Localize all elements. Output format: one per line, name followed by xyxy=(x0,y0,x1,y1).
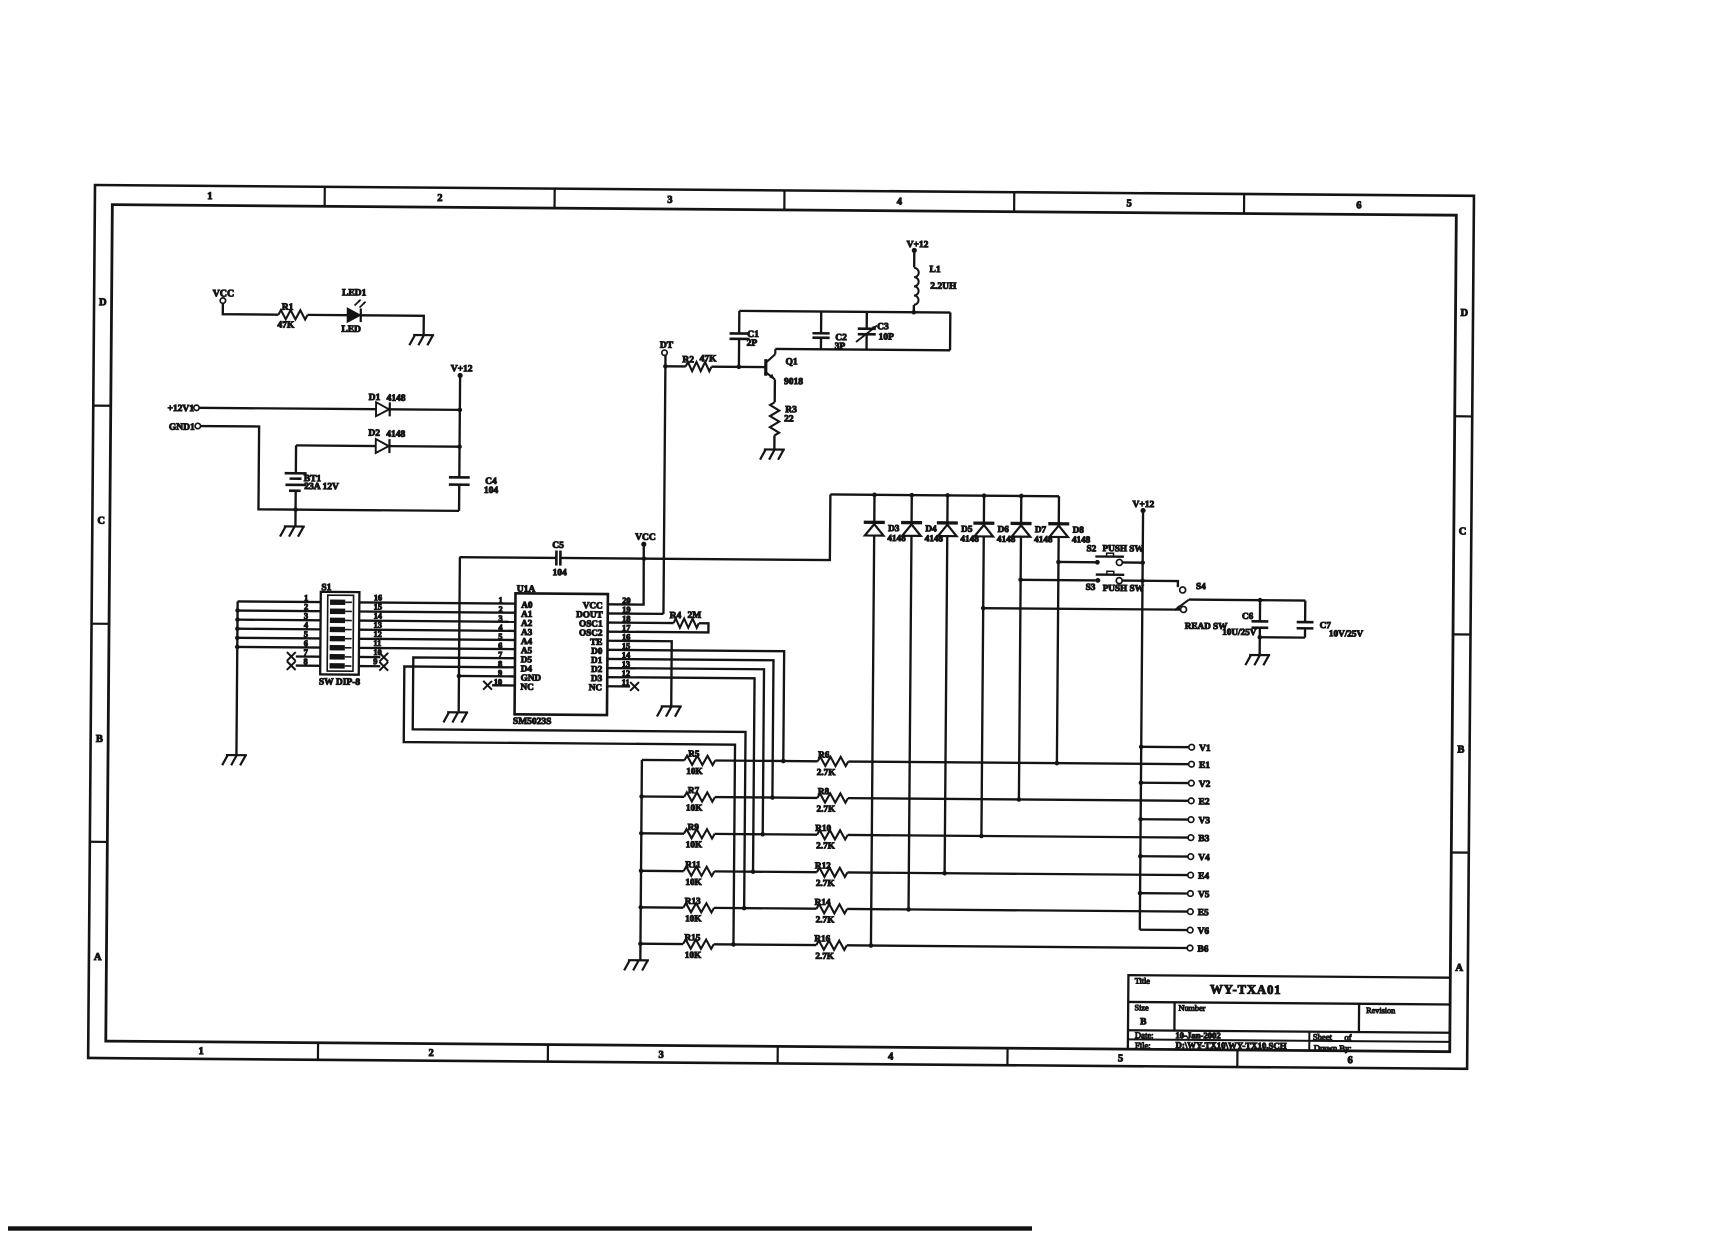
svg-text:L1: L1 xyxy=(930,265,941,275)
svg-text:4: 4 xyxy=(888,1052,894,1063)
no-connect S1 pin 7 xyxy=(287,652,320,661)
resistor R2 47K xyxy=(682,354,717,371)
svg-text:2.7K: 2.7K xyxy=(816,840,836,850)
svg-text:PUSH SW: PUSH SW xyxy=(1102,543,1144,553)
wire U1A pin 15 D0 to row 1 xyxy=(607,650,785,761)
svg-text:V1: V1 xyxy=(1199,744,1211,754)
svg-text:Revision: Revision xyxy=(1366,1006,1395,1015)
svg-text:C: C xyxy=(97,516,105,527)
svg-text:10K: 10K xyxy=(685,950,702,960)
diode D4 4148 xyxy=(898,495,944,910)
wire V+12 down to C4 xyxy=(458,375,461,477)
svg-text:D: D xyxy=(1460,308,1468,319)
svg-text:2.7K: 2.7K xyxy=(816,914,836,924)
node DT xyxy=(660,341,674,356)
battery BT1 23A 12V xyxy=(284,445,339,510)
wire Q1 emitter to R3 xyxy=(774,379,777,402)
svg-text:R12: R12 xyxy=(815,860,831,870)
wire DT vertical to DOUT xyxy=(663,355,665,613)
zone labels xyxy=(93,190,1469,1067)
svg-text:R13: R13 xyxy=(685,896,701,906)
wire S2 to V+12 rail xyxy=(1122,561,1142,564)
wire DT to R2 xyxy=(665,365,685,368)
svg-text:Sheet: Sheet xyxy=(1313,1032,1333,1042)
wire U1A pin 14 D1 to row 2 xyxy=(606,659,773,798)
svg-text:10V/25V: 10V/25V xyxy=(1329,628,1364,638)
junction (C6 bottom) xyxy=(1257,635,1262,640)
resistor R13 10K xyxy=(683,896,714,924)
U1A right pin names xyxy=(575,600,603,692)
resistor R3 22 xyxy=(770,402,797,435)
wire bus to R5 xyxy=(642,759,685,762)
svg-text:+12V1: +12V1 xyxy=(167,404,194,414)
wire battery to D2 xyxy=(296,444,376,447)
wire battery to ground xyxy=(294,510,296,527)
svg-text:R14: R14 xyxy=(815,897,831,907)
wire R10 to terminal B3 xyxy=(848,835,1188,838)
svg-text:Drawn By:: Drawn By: xyxy=(1314,1043,1352,1053)
capacitor C5 104 xyxy=(552,541,567,579)
wire V+12 to L1 xyxy=(913,252,915,267)
svg-text:104: 104 xyxy=(484,486,499,496)
resistor R1 47K xyxy=(277,303,307,331)
address ground bus xyxy=(236,601,237,755)
svg-text:14: 14 xyxy=(374,612,383,621)
wire V+12 rail to terminal V4 xyxy=(1140,855,1188,858)
junction (C6 top) xyxy=(1258,598,1263,603)
svg-text:2: 2 xyxy=(429,1048,434,1059)
wire R14 to terminal E5 xyxy=(847,909,1187,912)
terminal GND1 xyxy=(169,423,201,433)
node VCC (LED chain) xyxy=(213,288,235,303)
svg-text:V+12: V+12 xyxy=(907,240,929,250)
junctions (array bus) xyxy=(638,794,644,946)
svg-text:R11: R11 xyxy=(685,859,701,869)
svg-text:10U/25V: 10U/25V xyxy=(1222,627,1257,637)
svg-text:E4: E4 xyxy=(1198,872,1209,882)
wire U1A pin 7 D5 route xyxy=(411,657,746,908)
junction (D2/C4 rail) xyxy=(457,444,462,449)
power node VCC (logic) xyxy=(635,533,656,547)
svg-text:104: 104 xyxy=(553,568,568,578)
junction (S2/V+12) xyxy=(1140,560,1145,565)
wire D1 to V+12 node xyxy=(390,408,460,411)
junction (C1/base) xyxy=(737,365,742,370)
no-connect S1 pin 9 xyxy=(359,662,388,671)
junction (VCC/C5 rail) xyxy=(642,556,647,561)
svg-text:VCC: VCC xyxy=(635,533,656,543)
svg-text:V5: V5 xyxy=(1198,890,1210,900)
capacitor C2 3P xyxy=(812,311,847,351)
svg-text:2.7K: 2.7K xyxy=(817,767,837,777)
svg-text:D: D xyxy=(99,297,107,308)
svg-text:GND1: GND1 xyxy=(169,423,195,433)
svg-text:PUSH SW: PUSH SW xyxy=(1103,583,1145,593)
wire R1 to LED1 xyxy=(308,314,348,317)
wire C5 rail right segment to diode rail riser xyxy=(560,492,830,560)
wire S3 to S4 top contact xyxy=(1122,581,1178,588)
svg-text:R10: R10 xyxy=(815,823,831,833)
svg-text:11: 11 xyxy=(373,639,381,648)
U1A left pin numbers xyxy=(494,596,504,687)
svg-text:5: 5 xyxy=(1127,198,1132,209)
svg-text:47K: 47K xyxy=(699,354,717,364)
wires S1 right pins 16-11 to U1A xyxy=(359,602,515,649)
svg-text:E2: E2 xyxy=(1199,797,1210,807)
svg-text:B6: B6 xyxy=(1197,945,1208,955)
resistor R5 10K xyxy=(684,748,715,776)
push switch S3 PUSH SW xyxy=(1086,571,1145,593)
wire R8 to terminal E2 xyxy=(848,798,1188,801)
svg-text:Number: Number xyxy=(1179,1004,1206,1013)
wire V+12 rail to terminal V1 xyxy=(1141,746,1189,749)
svg-text:R1: R1 xyxy=(282,303,294,313)
svg-text:of: of xyxy=(1344,1032,1351,1042)
svg-text:R15: R15 xyxy=(684,932,700,942)
wire R5 to R6 xyxy=(715,759,817,762)
svg-text:LED1: LED1 xyxy=(342,288,367,298)
svg-text:S4: S4 xyxy=(1196,581,1206,591)
svg-text:S3: S3 xyxy=(1086,582,1096,592)
svg-text:4: 4 xyxy=(897,197,903,208)
wire VCC to U1A pin 20 xyxy=(608,546,644,605)
junction (S3/V+12) xyxy=(1140,578,1145,583)
svg-text:2: 2 xyxy=(437,193,442,204)
svg-text:23A 12V: 23A 12V xyxy=(304,482,339,492)
svg-text:R9: R9 xyxy=(688,822,700,832)
svg-text:D:\WY-TX10\WY-TX10.SCH: D:\WY-TX10\WY-TX10.SCH xyxy=(1176,1040,1287,1051)
svg-text:12: 12 xyxy=(373,630,381,639)
wire bus to R13 xyxy=(641,906,684,909)
ground (address bus) xyxy=(222,755,247,765)
svg-text:3: 3 xyxy=(667,195,672,206)
title block text xyxy=(1134,976,1395,1053)
svg-text:2M: 2M xyxy=(688,611,702,621)
diode D6 4148 xyxy=(971,496,1016,837)
svg-text:D5: D5 xyxy=(961,524,973,534)
wire R12 to terminal E4 xyxy=(847,872,1187,875)
U1A right pin numbers xyxy=(622,596,632,687)
svg-text:WY-TXA01: WY-TXA01 xyxy=(1210,982,1281,997)
no-connect U1A pin 10 xyxy=(483,681,515,690)
svg-text:10K: 10K xyxy=(686,766,703,776)
diode D2 4148 xyxy=(368,429,405,454)
wire U1A pin 16 TE to ground xyxy=(607,641,672,707)
svg-text:D3: D3 xyxy=(888,523,900,533)
no-connect S1 pin 8 xyxy=(287,661,320,670)
resistor R6 2.7K xyxy=(817,749,849,777)
svg-text:B3: B3 xyxy=(1198,834,1209,844)
wire C6 to ground xyxy=(1258,637,1260,655)
svg-text:B: B xyxy=(1140,1017,1147,1027)
svg-text:E5: E5 xyxy=(1198,908,1209,918)
svg-text:2.7K: 2.7K xyxy=(815,951,835,961)
ground (battery) xyxy=(280,526,305,536)
junction (S3 tap) xyxy=(1018,577,1023,582)
junctions (V+12 rail to V terminals) xyxy=(1138,745,1144,896)
svg-text:C6: C6 xyxy=(1242,611,1254,621)
svg-text:A: A xyxy=(1455,963,1463,974)
diode D5 4148 xyxy=(934,495,979,873)
svg-text:NC: NC xyxy=(589,682,602,692)
svg-text:V4: V4 xyxy=(1198,853,1210,863)
wire tank bottom rail xyxy=(775,349,950,350)
svg-text:DT: DT xyxy=(660,341,674,351)
capacitor C1 2P xyxy=(729,311,759,367)
wire R13 to R14 xyxy=(714,907,816,910)
svg-text:NC: NC xyxy=(521,682,534,692)
ground (Q1 emitter) xyxy=(760,449,785,459)
svg-text:S1: S1 xyxy=(321,583,331,593)
junctions (diode column bottoms) xyxy=(869,759,1060,949)
wire R2 to Q1 base xyxy=(711,365,765,368)
svg-text:10K: 10K xyxy=(686,803,703,813)
junction (S2 tap) xyxy=(1056,560,1061,565)
svg-text:Title: Title xyxy=(1135,976,1151,985)
svg-text:47K: 47K xyxy=(277,321,295,331)
wire bus to R15 xyxy=(640,943,683,946)
wire R4 to U1A pin 17 OSC2 xyxy=(608,623,709,633)
no-connect S1 pin 10 xyxy=(359,653,388,662)
svg-text:2P: 2P xyxy=(747,339,758,349)
junction (L1/tank) xyxy=(912,310,917,315)
wire V+12 rail to terminal V6 xyxy=(1140,929,1188,932)
scanner edge artifact xyxy=(8,1226,1032,1230)
wire L1 to tank rail xyxy=(913,305,915,312)
svg-text:E1: E1 xyxy=(1199,761,1210,771)
svg-text:4148: 4148 xyxy=(386,430,405,440)
capacitor C7 10V/25V xyxy=(1297,600,1364,638)
wire bus to R9 xyxy=(641,832,684,835)
wire D2 to C4 rail xyxy=(389,445,459,448)
wire +12V1 to D1 xyxy=(199,408,376,409)
svg-text:U1A: U1A xyxy=(517,585,536,595)
svg-text:2.2UH: 2.2UH xyxy=(930,282,957,292)
svg-text:A: A xyxy=(94,952,102,963)
wire diode top rail xyxy=(830,494,1059,496)
title block frame xyxy=(1128,975,1450,1052)
power node V+12 (supply) xyxy=(451,364,473,378)
push switch S2 PUSH SW xyxy=(1086,543,1144,566)
svg-text:3: 3 xyxy=(659,1050,664,1061)
svg-text:R8: R8 xyxy=(818,786,830,796)
svg-text:9: 9 xyxy=(498,669,502,678)
wire U1A pin 19 DOUT to DT xyxy=(608,612,664,615)
wire R11 to R12 xyxy=(714,870,816,873)
wire C5 rail left segment xyxy=(459,556,556,559)
wire C4 to bottom rail xyxy=(458,485,461,511)
svg-text:D2: D2 xyxy=(368,429,380,439)
svg-text:5: 5 xyxy=(1118,1053,1123,1064)
terminal +12V1 xyxy=(167,404,199,414)
wire R9 to R10 xyxy=(715,833,817,836)
diode D8 4148 xyxy=(1046,496,1091,763)
op-amp U1A SM5023S body xyxy=(513,585,608,728)
junction (DT/R2) xyxy=(663,364,668,369)
wire tank right edge xyxy=(949,313,952,351)
svg-text:V2: V2 xyxy=(1199,780,1211,790)
wire R16 to terminal B6 xyxy=(847,945,1187,948)
svg-text:B: B xyxy=(96,734,103,745)
wire D7 column to S3 xyxy=(1021,579,1098,582)
resistor R4 2M xyxy=(670,611,702,628)
diode LED1 xyxy=(341,288,366,335)
svg-text:2.7K: 2.7K xyxy=(816,804,836,814)
S1 right pin numbers xyxy=(373,593,383,666)
resistor R8 2.7K xyxy=(816,786,848,814)
resistor R10 2.7K xyxy=(815,823,848,851)
wire U1A pin 9 GND to bus xyxy=(459,675,515,678)
svg-text:File:: File: xyxy=(1135,1040,1151,1050)
svg-text:LED: LED xyxy=(341,325,361,335)
junctions (S1 left bus) xyxy=(235,608,240,649)
power node V+12 (oscillator) xyxy=(907,240,929,253)
svg-text:2.7K: 2.7K xyxy=(816,878,836,888)
resistor R7 10K xyxy=(684,785,715,813)
svg-text:10-Jan-2002: 10-Jan-2002 xyxy=(1175,1030,1220,1040)
no-connect U1A pin 11 xyxy=(607,682,639,691)
svg-text:C: C xyxy=(1459,526,1467,537)
wire R15 to R16 xyxy=(714,943,816,946)
junctions (data verticals on rows) xyxy=(731,758,785,947)
capacitor C4 104 xyxy=(449,476,499,495)
svg-text:R4: R4 xyxy=(670,611,682,621)
diode D3 4148 xyxy=(860,495,906,946)
svg-text:D4: D4 xyxy=(925,523,937,533)
zone tick marks xyxy=(88,185,1474,1069)
svg-text:R16: R16 xyxy=(814,933,830,943)
wire D8 column to S2 xyxy=(1058,561,1097,564)
svg-text:C3: C3 xyxy=(877,322,889,332)
wire LED1 to ground xyxy=(361,315,424,335)
svg-text:10K: 10K xyxy=(685,913,702,923)
wire V+12 rail to terminal V3 xyxy=(1141,818,1189,821)
wire bus to R7 xyxy=(642,795,685,798)
resistor R14 2.7K xyxy=(815,897,848,925)
svg-text:V3: V3 xyxy=(1198,816,1210,826)
ground bus (logic) xyxy=(459,557,460,711)
wire R7 to R8 xyxy=(715,796,817,799)
svg-text:9: 9 xyxy=(373,657,377,666)
svg-text:4148: 4148 xyxy=(386,394,405,404)
svg-text:10K: 10K xyxy=(685,877,702,887)
svg-text:Q1: Q1 xyxy=(785,357,797,367)
svg-text:SW DIP-8: SW DIP-8 xyxy=(319,677,361,687)
svg-text:1: 1 xyxy=(207,191,212,202)
svg-text:SM5023S: SM5023S xyxy=(513,717,552,727)
inductor L1 2.2UH xyxy=(914,265,957,305)
wire V+12 rail to terminal V5 xyxy=(1140,892,1188,895)
svg-text:C5: C5 xyxy=(552,541,564,551)
wire U1A pin 18 OSC1 to R4 xyxy=(608,621,674,624)
svg-text:R5: R5 xyxy=(688,748,700,758)
ground (LED chain) xyxy=(409,335,434,345)
svg-text:6: 6 xyxy=(1356,200,1361,211)
wire GND1 to bottom rail xyxy=(200,426,460,511)
ground (TE) xyxy=(657,706,682,716)
svg-text:3P: 3P xyxy=(835,342,846,352)
svg-text:20: 20 xyxy=(622,596,630,605)
wire V+12 rail vertical xyxy=(1140,513,1143,930)
wire R3 to ground xyxy=(773,435,775,449)
svg-text:10P: 10P xyxy=(879,332,895,342)
diode D7 4148 xyxy=(1008,496,1053,800)
svg-text:V+12: V+12 xyxy=(451,364,473,374)
resistor R9 10K xyxy=(684,822,715,850)
resistor R15 10K xyxy=(683,932,714,960)
junction (D1/V+12) xyxy=(458,408,463,413)
svg-text:6: 6 xyxy=(1347,1055,1352,1066)
svg-text:R7: R7 xyxy=(688,785,700,795)
wire D6 column to S4 bottom contact xyxy=(983,608,1180,610)
wire R6 to terminal E1 xyxy=(848,762,1188,765)
read switch S4 READ SW xyxy=(1174,581,1228,631)
junction (S4 tap) xyxy=(981,606,986,611)
svg-text:V6: V6 xyxy=(1198,927,1210,937)
svg-text:19: 19 xyxy=(622,605,630,614)
svg-text:B: B xyxy=(1457,745,1464,756)
S1 left pin numbers xyxy=(304,593,310,666)
svg-text:16: 16 xyxy=(374,593,382,602)
svg-text:13: 13 xyxy=(374,621,382,630)
wire U1A pin 8 D4 route xyxy=(402,666,735,944)
wire U1A pin 12 D3 to row 4 xyxy=(606,677,755,872)
wire S1 left pins 1-6 to bus xyxy=(237,601,320,647)
junctions (diode rail) xyxy=(872,493,1023,499)
resistor R12 2.7K xyxy=(815,860,848,888)
resistor R16 2.7K xyxy=(814,933,847,961)
svg-text:Date:: Date: xyxy=(1135,1030,1154,1040)
svg-text:1: 1 xyxy=(199,1046,204,1057)
svg-text:10K: 10K xyxy=(686,839,703,849)
junction (battery/bottom rail) xyxy=(293,507,298,512)
DIP switch S1 SW DIP-8 xyxy=(319,583,361,688)
trimmer capacitor C3 10P xyxy=(856,312,894,350)
ground (resistor array) xyxy=(624,960,649,970)
resistor R11 10K xyxy=(684,859,715,887)
wire C6/C7 bottom rail xyxy=(1260,636,1305,639)
svg-text:R6: R6 xyxy=(818,749,830,759)
wire bus to R11 xyxy=(641,870,684,873)
U1A left pin names xyxy=(521,600,543,692)
wire VCC to R1 xyxy=(223,303,279,314)
wire tank top rail xyxy=(739,311,950,313)
svg-text:22: 22 xyxy=(784,414,794,424)
transistor Q1 9018 xyxy=(766,349,804,387)
wire U1A pin 13 D2 to row 3 xyxy=(606,668,764,834)
ground (C6) xyxy=(1245,655,1270,665)
svg-text:S2: S2 xyxy=(1086,543,1096,553)
wire V+12 rail to terminal V2 xyxy=(1141,782,1189,785)
svg-text:Size: Size xyxy=(1135,1003,1150,1012)
svg-text:D1: D1 xyxy=(369,393,381,403)
capacitor C6 10U/25V xyxy=(1222,600,1268,637)
svg-text:R2: R2 xyxy=(682,355,694,365)
svg-text:D8: D8 xyxy=(1073,525,1085,535)
ground (logic bus) xyxy=(443,712,468,722)
svg-text:D7: D7 xyxy=(1035,524,1047,534)
diode D1 4148 xyxy=(368,393,405,416)
svg-text:15: 15 xyxy=(374,603,382,612)
svg-text:D6: D6 xyxy=(998,524,1010,534)
resistor array ground bus xyxy=(640,760,642,960)
sheet outer border xyxy=(88,185,1474,1069)
svg-text:9018: 9018 xyxy=(784,377,803,387)
svg-text:4148: 4148 xyxy=(925,533,944,543)
output terminals V1-B6 xyxy=(1187,744,1211,955)
power node V+12 (matrix) xyxy=(1132,500,1154,513)
junction (GND pin bus) xyxy=(457,674,462,679)
